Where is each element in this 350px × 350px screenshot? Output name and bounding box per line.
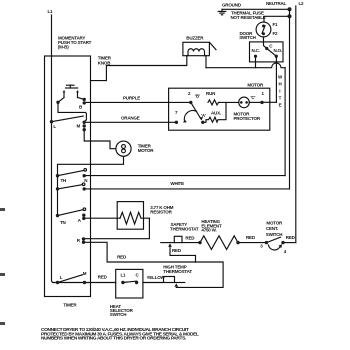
svg-text:YELLOW: YELLOW <box>147 275 166 280</box>
svg-text:N: N <box>84 178 87 183</box>
svg-text:L: L <box>60 275 63 280</box>
svg-text:RED: RED <box>172 248 182 253</box>
svg-text:'C': 'C' <box>251 95 256 100</box>
svg-text:PURPLE: PURPLE <box>123 96 140 101</box>
svg-text:SWITCH: SWITCH <box>266 232 283 237</box>
svg-text:T: T <box>279 96 282 101</box>
svg-text:THERMOSTAT: THERMOSTAT <box>170 227 199 232</box>
svg-text:M: M <box>77 124 81 129</box>
svg-text:SWITCH: SWITCH <box>110 312 127 317</box>
svg-text:(M-B): (M-B) <box>58 45 69 50</box>
svg-text:RESISTOR: RESISTOR <box>150 209 172 214</box>
svg-text:SWITCH: SWITCH <box>239 35 256 40</box>
svg-text:N.C.: N.C. <box>252 48 260 53</box>
svg-text:L1: L1 <box>48 9 54 14</box>
svg-text:NUMBERS WHEN WRITING ABOUT THI: NUMBERS WHEN WRITING ABOUT THIS DRYER OR… <box>41 336 186 342</box>
svg-text:H: H <box>279 82 282 87</box>
svg-text:RED: RED <box>117 254 127 259</box>
svg-text:TN: TN <box>60 220 66 225</box>
svg-text:NOT RESETABLE: NOT RESETABLE <box>231 15 266 20</box>
svg-text:F2: F2 <box>273 31 279 36</box>
svg-text:NEUTRAL: NEUTRAL <box>266 1 287 6</box>
svg-text:TIMER: TIMER <box>63 302 77 307</box>
svg-text:'A': 'A' <box>201 113 206 118</box>
svg-text:MOTOR: MOTOR <box>247 82 264 87</box>
svg-text:RUN: RUN <box>206 91 215 96</box>
svg-text:THERMOSTAT: THERMOSTAT <box>163 269 192 274</box>
svg-text:WHITE: WHITE <box>170 181 184 186</box>
svg-text:'B': 'B' <box>195 94 200 99</box>
svg-text:AUX.: AUX. <box>211 111 221 116</box>
svg-text:N.O.: N.O. <box>274 48 282 53</box>
svg-text:RED: RED <box>286 235 296 240</box>
svg-text:M: M <box>83 271 87 276</box>
svg-text:L1: L1 <box>121 272 127 277</box>
svg-text:RED: RED <box>98 275 108 280</box>
svg-text:PROTECTOR: PROTECTOR <box>234 116 261 121</box>
svg-text:L2: L2 <box>299 1 305 6</box>
svg-text:RED: RED <box>185 235 195 240</box>
svg-text:ORANGE: ORANGE <box>121 116 140 121</box>
svg-text:L: L <box>53 124 56 129</box>
svg-text:MOTOR: MOTOR <box>138 148 155 153</box>
svg-text:KNOB: KNOB <box>98 61 111 66</box>
svg-text:F1: F1 <box>273 22 279 27</box>
svg-text:BUZZER: BUZZER <box>186 36 204 41</box>
svg-text:CENT.: CENT. <box>266 226 278 231</box>
svg-text:TH: TH <box>61 178 67 183</box>
svg-text:4750 W.: 4750 W. <box>201 228 216 233</box>
svg-text:MOTOR: MOTOR <box>266 220 283 225</box>
svg-text:GROUND: GROUND <box>222 3 242 8</box>
svg-text:E: E <box>279 103 282 108</box>
svg-text:RED: RED <box>246 235 256 240</box>
svg-text:I: I <box>279 89 280 94</box>
